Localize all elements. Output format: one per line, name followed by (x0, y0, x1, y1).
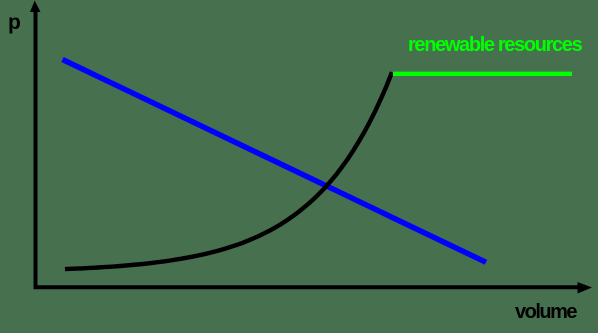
y-axis arrowhead (30, 1, 41, 13)
black supply curve (65, 72, 392, 269)
x-axis arrowhead (578, 282, 593, 294)
label volume (515, 301, 576, 324)
y-axis (34, 11, 38, 289)
blue demand line (63, 60, 487, 263)
x-axis (34, 285, 579, 289)
label renewable resources (408, 34, 581, 57)
green renewable cap line (393, 72, 572, 76)
label p (8, 11, 21, 35)
